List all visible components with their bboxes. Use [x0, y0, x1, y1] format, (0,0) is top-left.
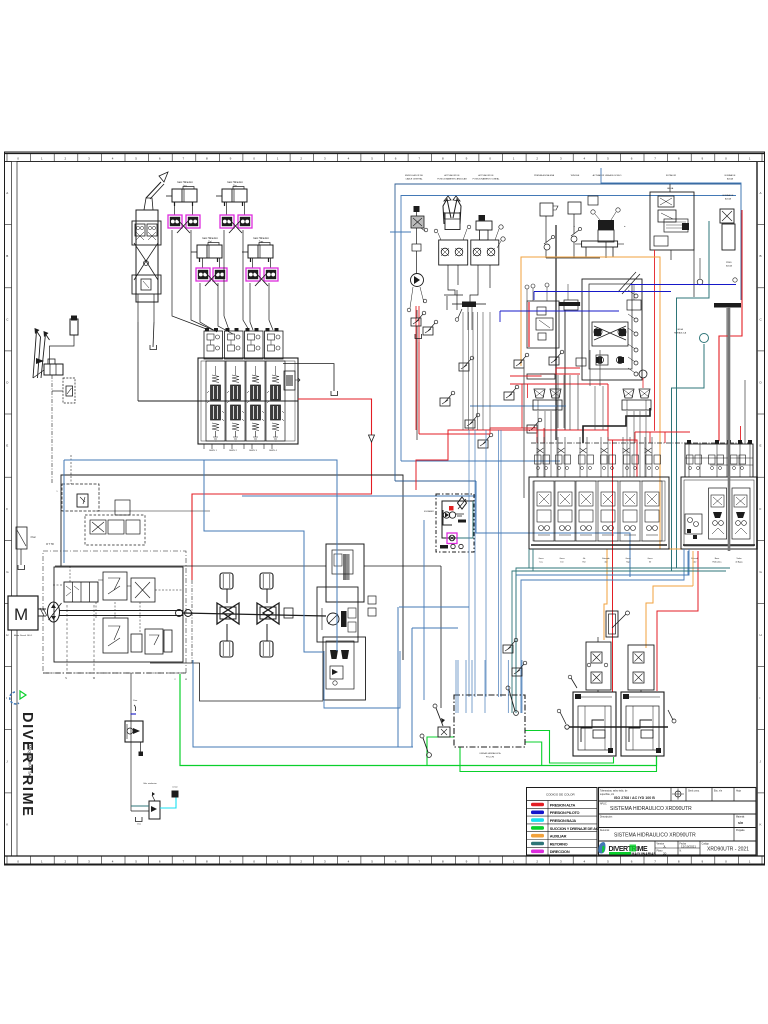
teal gauge: [700, 334, 709, 343]
svg-text:Der: Der: [233, 185, 237, 188]
svg-text:I: I: [6, 696, 7, 700]
unidad levers: [436, 708, 443, 726]
level valve cyan lines: [160, 798, 176, 809]
brake valve drain: [140, 742, 142, 752]
svg-text:Valv. nivelacion: Valv. nivelacion: [143, 783, 157, 785]
svg-text:R T TR: R T TR: [46, 543, 54, 546]
parking brake pilot line: [130, 673, 132, 811]
wire blue pilot 1: [630, 284, 736, 286]
front axle wheels: [220, 573, 233, 589]
blockeo platform: [582, 241, 618, 247]
wire orange bank feed: [604, 549, 607, 640]
cylinder Gato Hidraulico Der: [216, 187, 247, 207]
bank column SERV 2: [226, 361, 245, 441]
unidad feeder lines: [455, 660, 457, 713]
bank2 section 2: [732, 488, 750, 539]
wire bundle A blue: [528, 549, 530, 568]
DIVERTRIME vertical logo icon: [10, 691, 26, 704]
joystick lever arm: [146, 182, 161, 198]
coil group 1: [533, 389, 562, 410]
shaft couplings: [176, 610, 183, 617]
prensa escalera valve: [540, 203, 553, 216]
wire bundle B blue: [532, 549, 534, 571]
brake pedal valve: [36, 358, 44, 364]
small lever valve c: [459, 356, 474, 371]
svg-text:Denomin:: Denomin:: [600, 830, 610, 832]
angular valve box: [439, 240, 468, 265]
svg-text:K: K: [6, 822, 8, 826]
cluster lever circles column: [634, 294, 638, 298]
lineal cylinder bottle: [479, 215, 486, 221]
wire orange enclosure: [521, 257, 693, 549]
svg-text:WINCHE: WINCHE: [571, 175, 580, 177]
wire red hitch feed: [657, 551, 698, 691]
legend table CODIGO DE COLOR: [527, 788, 598, 856]
svg-text:SERV 3: SERV 3: [249, 450, 258, 452]
small lever valve e: [527, 418, 542, 433]
svg-text:MAQUINARIAS: MAQUINARIAS: [632, 852, 657, 856]
svg-text:N.: N.: [680, 851, 683, 853]
svg-text:dor: dor: [694, 562, 697, 564]
wire bundle right L4 teal: [512, 571, 726, 713]
svg-text:B: B: [760, 254, 762, 258]
svg-text:Gato Hidraulico: Gato Hidraulico: [177, 181, 194, 184]
svg-text:H: H: [760, 633, 762, 637]
axle coupling box: [284, 608, 293, 618]
central cluster main box: [582, 279, 642, 380]
svg-text:AGUA: AGUA: [725, 198, 732, 201]
wire red riser 608: [608, 384, 637, 477]
escaner inner box: [442, 501, 473, 538]
svg-text:Izq: Izq: [540, 562, 543, 564]
svg-text:Garra: Garra: [647, 558, 653, 560]
enrollador mid box: [412, 244, 421, 251]
lineal drain steps: [470, 265, 478, 302]
left ruler band: [5, 162, 12, 857]
teal feed: [131, 805, 149, 807]
svg-text:◄: ◄: [573, 225, 575, 228]
bank1 top hats: [536, 437, 538, 477]
escaner magenta valve: [447, 533, 457, 544]
front axle differential: [217, 603, 239, 624]
svg-text:H: H: [6, 633, 8, 637]
svg-text:PT12-7M: PT12-7M: [486, 757, 495, 759]
bottom ruler band: [5, 856, 765, 864]
escaner flow diamond: [458, 497, 467, 509]
water pump flask: [722, 224, 735, 250]
misc vertical connectors: [446, 296, 448, 310]
pilot valves row: [514, 353, 529, 368]
solenoid valve pair A (magenta): [168, 215, 182, 228]
svg-text:Del: Del: [208, 242, 212, 244]
svg-text:PRES.: PRES.: [726, 262, 732, 264]
hitch levers: [565, 725, 569, 729]
cylinder Gato Hidraulico Del: [191, 243, 222, 263]
pressure bar cylinder: [714, 303, 741, 308]
svg-text:s/n: s/n: [738, 821, 743, 825]
angular drain steps: [448, 265, 455, 295]
svg-text:ENROLLADOR DE: ENROLLADOR DE: [405, 174, 423, 177]
wire green branch 2b: [525, 731, 614, 764]
cluster bar top: [559, 302, 581, 306]
enrollador blue tie: [390, 231, 411, 233]
sheet outer border: [5, 152, 765, 865]
svg-text:sensor: sensor: [172, 787, 178, 789]
DIVERTRIME logo in title block: [598, 842, 656, 856]
svg-text:Gato Hidraulico: Gato Hidraulico: [253, 237, 270, 240]
hydrostatic pump: [48, 602, 62, 622]
pilot lines from solenoid valves to valve bank: [172, 230, 209, 330]
svg-text:XRD90UTR - 2021: XRD90UTR - 2021: [707, 847, 749, 853]
black bus lines: [55, 565, 326, 567]
manifold bar: [444, 294, 463, 296]
cluster top taps: [564, 300, 578, 310]
grey risers right: [744, 380, 746, 444]
svg-text:Motor Diesel 100.1: Motor Diesel 100.1: [14, 634, 33, 637]
tank mid: [415, 334, 422, 339]
bank1 section 6: [642, 481, 662, 541]
bank2 section 1: [709, 488, 727, 539]
cylinder port lines: [174, 202, 176, 215]
wire blue gearbox to unidad: [399, 606, 469, 608]
bank2 left cluster: [685, 514, 702, 534]
pump control valve stack: [64, 582, 98, 602]
motor diesel M: [8, 596, 38, 630]
svg-text:1 bar: 1 bar: [137, 824, 141, 826]
wire teal water return B: [672, 344, 705, 571]
main riser grey: [555, 225, 557, 440]
air valve small: [588, 196, 598, 205]
small lever valve d: [478, 433, 493, 448]
svg-text:HIDRAULICA: HIDRAULICA: [674, 332, 687, 335]
hitch block drop lines: [597, 690, 599, 692]
bar fitting: [527, 374, 555, 379]
wire unidad feeders: [468, 430, 470, 697]
blue tick: [131, 713, 137, 715]
heavy grey riser bank2: [728, 307, 731, 551]
rotador red drop: [654, 250, 656, 431]
pump lower valve A: [103, 618, 128, 653]
wire blue loop feed: [242, 495, 476, 497]
pump lower valve C: [145, 629, 163, 654]
bank top mini pilot valves: [535, 455, 542, 464]
bank tank line: [283, 364, 334, 391]
svg-text:A: A: [6, 191, 8, 195]
bank column SERV 1: [206, 361, 225, 441]
solenoid valve pair C (magenta): [196, 268, 210, 281]
hitch pilot block L: [586, 642, 611, 690]
wire red drops bank1: [543, 428, 545, 443]
level tank: [136, 817, 143, 822]
escaner bottom glyphs: [440, 545, 448, 549]
svg-text:Pulgada: Pulgada: [736, 830, 745, 832]
black transmission enclosure: [61, 475, 403, 660]
svg-text:RETORNO: RETORNO: [550, 841, 568, 846]
svg-text:Garra: Garra: [538, 558, 544, 560]
svg-text:12/10/2021: 12/10/2021: [681, 845, 696, 849]
bank1 section 3: [576, 481, 596, 541]
wire bundle right L3 teal: [516, 568, 730, 586]
bank1 section 5: [620, 481, 640, 541]
svg-text:E: E: [6, 444, 8, 448]
escaner pumps: [443, 512, 449, 518]
wire bundle C blue: [423, 520, 425, 700]
toggle valve: [606, 611, 618, 637]
cylinder Gato Hidraulico Tras: [242, 243, 273, 263]
gauge hang: [697, 279, 703, 285]
aux pilot lever b: [512, 661, 527, 676]
svg-text:SISTEMA HIDRAULICO XRD90UTR: SISTEMA HIDRAULICO XRD90UTR: [614, 833, 696, 839]
wire green branch 3: [460, 747, 657, 772]
svg-text:SERV 4: SERV 4: [269, 450, 278, 452]
angular clamp arms: [443, 199, 451, 224]
svg-text:JL: JL: [663, 845, 667, 849]
svg-text:AUXILIAR: AUXILIAR: [550, 834, 567, 839]
svg-text:MAQUINARIAS SAC: MAQUINARIAS SAC: [28, 745, 32, 779]
relief 21 bar: [62, 484, 99, 511]
pilot valve a: [411, 311, 426, 326]
enrollador valve: [411, 216, 424, 228]
big enclosure outer: [395, 184, 741, 481]
bank1 section 1: [534, 481, 554, 541]
prensa lever valve: [544, 244, 550, 250]
escaner dashed box: [436, 494, 474, 552]
enrollador red drops: [415, 306, 417, 430]
svg-text:Hidraulica: Hidraulica: [713, 562, 723, 564]
svg-text:de Agua: de Agua: [735, 561, 743, 564]
svg-text:3 bar: 3 bar: [30, 536, 35, 539]
unidad inlet valve: [438, 727, 450, 737]
coil group drop lines: [537, 411, 539, 477]
title block: [599, 788, 757, 856]
bank column SERV 3: [246, 361, 265, 441]
blue coil feed: [470, 405, 566, 407]
svg-text:GRUA: GRUA: [677, 328, 683, 331]
pressure switch E dashed: [63, 378, 75, 403]
svg-text:dor: dor: [605, 562, 608, 564]
inner drawing frame: [17, 162, 757, 857]
rotador drain: [670, 250, 672, 260]
crossover valves: [592, 322, 628, 346]
escaner teal link: [457, 501, 473, 538]
bank2 body: [681, 477, 757, 549]
pedal pilot control line: [51, 375, 53, 484]
gearbox mid assembly: [317, 587, 358, 642]
linea blockeo solenoid: [598, 220, 614, 230]
brake release valve: [125, 721, 143, 742]
svg-text:AGUA: AGUA: [727, 178, 734, 181]
svg-text:Tolerancias, salvo indic. de: Tolerancias, salvo indic. de: [600, 790, 628, 793]
svg-text:Codigo: Codigo: [702, 844, 710, 846]
svg-text:BOMBA DE: BOMBA DE: [723, 194, 734, 197]
wire red center cluster: [510, 383, 608, 385]
wire blue pilot 1b: [534, 291, 671, 293]
svg-text:Tanke: Tanke: [736, 558, 742, 560]
svg-text:SERV 2: SERV 2: [229, 450, 238, 452]
bank feed bus: [138, 400, 298, 402]
svg-text:SISTEMA HIDRAULICO XRD90UTR: SISTEMA HIDRAULICO XRD90UTR: [610, 806, 692, 812]
svg-text:UNIDAD HIDRAULICA: UNIDAD HIDRAULICA: [479, 752, 501, 755]
joystick control tower: [136, 210, 158, 302]
svg-text:Extende: Extende: [602, 557, 610, 560]
solenoid valve pair B (magenta): [220, 215, 234, 228]
water gauge: [733, 278, 737, 282]
svg-text:PRESION BAJA: PRESION BAJA: [550, 818, 577, 823]
enrollador solenoid cap: [414, 206, 420, 212]
gearbox side taps: [368, 596, 376, 604]
wire bundle right L1: [516, 549, 689, 713]
coil group 2: [622, 389, 651, 410]
svg-text:Garra: Garra: [625, 558, 631, 560]
wire red right main: [719, 210, 742, 441]
bank1 section 4: [598, 481, 618, 541]
wire bundle right L2: [521, 549, 684, 713]
escaner elbow: [443, 510, 452, 525]
svg-text:SUCCION Y DRENAJE DE ACEIT: SUCCION Y DRENAJE DE ACEIT: [550, 826, 605, 831]
wire red bus left: [416, 430, 537, 490]
bank2 top box: [685, 444, 753, 477]
wire red drop to hitch L: [608, 440, 613, 692]
wire green pump feeder: [427, 737, 454, 766]
svg-text:SERV 1: SERV 1: [209, 450, 218, 452]
charge relief valve: [103, 572, 127, 600]
enrollador motor: [411, 274, 424, 287]
hitch main block R: [621, 692, 664, 756]
svg-text:Descripcion:: Descripcion:: [600, 816, 613, 819]
svg-text:Garra: Garra: [559, 558, 565, 560]
svg-text:PRENSA ESCALERA: PRENSA ESCALERA: [534, 174, 555, 177]
wire blue pilot 2: [500, 310, 619, 312]
bank1 section 2: [555, 481, 575, 541]
svg-text:ACTUADOR DE: ACTUADOR DE: [478, 174, 494, 177]
svg-text:superficie, s/n: superficie, s/n: [600, 793, 615, 796]
gauge circle mid: [639, 370, 647, 378]
bank relief valve: [284, 371, 295, 390]
wire green branch 2: [525, 742, 542, 766]
svg-text:F: F: [760, 507, 762, 511]
valve bank top modules: [204, 331, 223, 359]
rear axle wheels: [260, 573, 273, 589]
svg-text:Hoja: Hoja: [736, 791, 741, 793]
drive shaft to pump: [38, 608, 46, 610]
svg-text:ESCANER: ESCANER: [424, 510, 434, 513]
bank2 bottom color drops: [687, 551, 689, 575]
svg-text:►: ►: [624, 225, 626, 228]
water pump valve: [720, 209, 734, 223]
solenoid valve pair D (magenta): [246, 268, 260, 281]
svg-text:BOMBA DE: BOMBA DE: [725, 174, 736, 177]
tower drain lines: [137, 322, 139, 401]
top ruler band: [5, 154, 765, 162]
svg-text:E: E: [760, 444, 762, 448]
suction filter: [16, 527, 27, 549]
wire red drop: [418, 342, 420, 434]
4/3 control valve dashed: [85, 515, 145, 545]
accumulator line: [50, 335, 75, 364]
accumulator: [71, 316, 77, 321]
wire red bus center: [537, 429, 608, 431]
transfer gearbox: [326, 544, 364, 602]
winche valve: [568, 202, 581, 214]
bank column SERV 4: [266, 361, 285, 441]
svg-text:Gato Hidraulico: Gato Hidraulico: [202, 237, 219, 240]
right ruler band: [758, 162, 765, 857]
pump box internal dashes: [69, 566, 71, 582]
joystick lever pivot: [144, 198, 153, 210]
hitch main block L: [573, 692, 616, 756]
gearbox brake block: [323, 637, 366, 700]
crossover lower pair: [597, 357, 604, 364]
main drive shaft line: [59, 610, 183, 612]
wire blue brake bracket: [324, 651, 400, 708]
svg-text:CODIGO DE COLOR: CODIGO DE COLOR: [546, 793, 576, 797]
grey risers: [523, 360, 525, 498]
wire teal water return A: [677, 221, 710, 568]
svg-text:A: A: [760, 191, 762, 195]
valve bank body: [198, 358, 298, 444]
cylinder Gato Hidraulico Izq: [166, 187, 197, 207]
cluster diag levers: [618, 272, 636, 292]
svg-text:POSICIONAMENTO ANGULAR: POSICIONAMENTO ANGULAR: [437, 178, 467, 181]
bank top dash-dot rail: [531, 442, 753, 444]
rear axle differential: [257, 603, 279, 624]
cluster red jog: [556, 367, 580, 369]
svg-text:F: F: [6, 507, 8, 511]
pump group enclosure: [54, 567, 183, 662]
svg-text:K: K: [760, 822, 762, 826]
wire red bus right: [635, 431, 690, 433]
svg-text:DIVERTRIME: DIVERTRIME: [19, 712, 35, 817]
svg-text:Rot: Rot: [582, 561, 586, 564]
svg-text:PRESION PILOTO: PRESION PILOTO: [550, 810, 580, 815]
wire blue charge line: [64, 460, 337, 651]
svg-text:M: M: [14, 605, 28, 624]
svg-text:1 bar: 1 bar: [133, 700, 138, 702]
svg-text:Gato Hidraulico: Gato Hidraulico: [227, 181, 244, 184]
bank pressure out (red): [192, 399, 372, 580]
svg-text:AGUA: AGUA: [726, 265, 732, 268]
svg-text:Der: Der: [560, 562, 564, 564]
big enclosure inner blue: [401, 196, 736, 462]
heavy drain steps: [583, 408, 650, 443]
pedal levers: [33, 331, 41, 378]
svg-text:DIRECCION: DIRECCION: [550, 849, 570, 854]
unidad hidraulica block: [454, 695, 525, 747]
wire green suction main: [180, 674, 657, 766]
svg-text:Esc. s/n: Esc. s/n: [714, 791, 723, 793]
bank1 body: [529, 477, 669, 549]
level valve cluster: [149, 801, 160, 819]
tank under tower: [150, 345, 157, 350]
svg-text:20: 20: [663, 852, 667, 856]
pilot valve b: [423, 320, 438, 335]
svg-text:PRESION ALTA: PRESION ALTA: [550, 802, 576, 807]
svg-text:ROTADOR: ROTADOR: [666, 174, 677, 177]
svg-text:CABLE CENTRAL: CABLE CENTRAL: [405, 178, 423, 181]
svg-text:ACTUADOR DE: ACTUADOR DE: [444, 174, 460, 177]
lineal gauges circles: [499, 225, 503, 229]
svg-text:Material:: Material:: [736, 816, 745, 819]
svg-text:POSICIONAMENTO LINEAL: POSICIONAMENTO LINEAL: [473, 178, 501, 181]
svg-text:ISO 2768 / AC IYD 100 B: ISO 2768 / AC IYD 100 B: [614, 796, 655, 800]
svg-text:APLIC: APLIC: [600, 803, 607, 806]
cluster small relief: [596, 355, 608, 365]
pump lower valve B: [131, 634, 142, 652]
aux pilot lever a: [503, 638, 518, 653]
wire blue brake loop: [193, 660, 413, 747]
central cluster left box: [527, 301, 559, 348]
svg-text:ACTUADOR LINEA BLOCKEO: ACTUADOR LINEA BLOCKEO: [593, 174, 622, 177]
